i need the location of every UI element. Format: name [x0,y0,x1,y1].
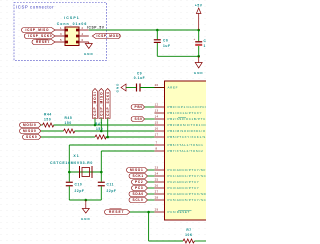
node: ICSP_SCK0 tap [106,136,109,139]
U1 pin stubs [154,88,164,213]
wire: ICSP_MOSI drop [94,119,96,126]
wire: PC2 to pin 25 [148,181,155,183]
capacitor C9 0.1uF (AREF decoupling) [134,72,146,92]
svg-text:27: 27 [155,190,159,194]
global label SCK1 (pin 24) [129,174,148,179]
svg-text:8: 8 [156,147,158,151]
wire: C9 to AREF pin 20 [140,87,165,89]
svg-text:150: 150 [96,127,103,131]
svg-text:MOSI0: MOSI0 [23,123,36,127]
svg-text:0.1uF: 0.1uF [134,76,146,80]
svg-text:PB1/OC1A/PTCXY: PB1/OC1A/PTCXY [168,111,203,115]
global label PB0 (pin 12) [131,105,145,110]
ground (below ICSP1 pin 6) [84,42,94,56]
global label PC2 (pin 25) [132,180,148,185]
svg-text:GND: GND [194,71,204,75]
svg-text:RESET: RESET [36,40,50,44]
svg-text:PC0/ADC0/PTCY/MISO1: PC0/ADC0/PTCY/MISO1 [168,168,207,172]
resonator X1 CSTCE16M0V53-R0 [50,154,93,178]
svg-text:ICSP_MOSI: ICSP_MOSI [97,34,121,38]
wire: SCK0 label to R47 [41,136,95,138]
svg-text:ICSP connector: ICSP connector [16,4,54,9]
wire: SCL0 to pin 28 [148,199,155,201]
svg-text:20: 20 [155,83,159,87]
svg-text:GND: GND [84,52,94,56]
global label ICSP_MISO (pin 1) [22,28,56,33]
global label ICSP_MOSI (vertical) [93,89,98,119]
wire: U1 pin 7 XTAL1 to crystal [69,144,154,146]
svg-text:MISO0: MISO0 [23,129,36,133]
svg-text:17: 17 [155,133,159,137]
U1 pin numbers [155,83,159,212]
svg-text:+5V: +5V [195,4,203,8]
svg-text:SS0: SS0 [135,117,143,121]
wire: R47 to U1 pin 17 (SCK0) [106,136,155,138]
svg-text:2: 2 [82,26,84,30]
svg-text:ICSP_MISO: ICSP_MISO [26,28,50,32]
svg-text:ICSP1: ICSP1 [64,16,80,20]
svg-text:C4: C4 [204,39,207,43]
wire: RESET drop [148,212,150,241]
wire: PB0 label to pin 12 [145,106,155,108]
U1 pin names [168,86,215,215]
svg-text:PB4/MISO0/RXD1/OC2B: PB4/MISO0/RXD1/OC2B [168,129,207,133]
power +5V [195,4,203,31]
svg-text:C6: C6 [163,39,168,43]
node: +5V / C4 junction [197,29,200,32]
svg-text:GND: GND [115,83,119,93]
svg-text:X1: X1 [73,154,79,158]
wire: MISO1 to pin 23 [148,169,155,171]
global label RESET (pin 29) [105,209,131,215]
ground (below crystal) [81,200,91,221]
svg-text:7: 7 [156,141,158,145]
svg-text:150: 150 [65,121,72,125]
global label MISO0 [20,129,42,134]
svg-text:1uF: 1uF [163,44,171,48]
svg-text:PC2/ADC2/PTCY: PC2/ADC2/PTCY [168,180,200,184]
resistor R47 150 [95,122,106,139]
global label SCL0 (pin 28) [129,198,148,203]
svg-text:ICSP_SCK0: ICSP_SCK0 [28,34,52,38]
connector ICSP1 (Conn_01x06) [55,16,89,46]
global label ICSP_SCK0 (vertical) [105,89,110,119]
svg-text:16: 16 [155,127,159,131]
svg-text:CSTCE16M0V53-R0: CSTCE16M0V53-R0 [50,161,93,165]
svg-text:PC1/ADC1/PTCY/SCK1: PC1/ADC1/PTCY/SCK1 [168,174,207,178]
svg-text:PB6/XTAL1/TOSC1: PB6/XTAL1/TOSC1 [168,143,204,147]
svg-text:SCL0: SCL0 [133,198,144,202]
svg-text:R45: R45 [65,116,73,120]
capacitor C6 1uF [154,30,171,56]
wire: R45 to U1 pin 16 (MISO0) [75,130,155,132]
svg-text:PB2/SS0/OC1B/PTCXY: PB2/SS0/OC1B/PTCXY [168,117,207,121]
global label MOSI0 [20,123,42,128]
svg-text:150: 150 [44,117,51,121]
svg-text:10K: 10K [185,233,193,237]
wire: RESET label to pin 29 [130,211,154,213]
svg-text:PB0: PB0 [135,105,143,109]
node: ICSP_MISO tap [100,130,103,133]
svg-text:10uF: 10uF [204,44,207,48]
wire: ICSP_MISO drop [100,119,102,132]
node: ICSP_MOSI tap [94,124,97,127]
svg-text:28: 28 [155,196,159,200]
wire: SS0 label to pin 14 [145,118,155,120]
node: ground tap [85,199,88,202]
svg-text:SDA0: SDA0 [133,192,144,196]
svg-text:22pF: 22pF [107,189,117,193]
svg-text:+: + [194,37,196,41]
wire: MOSI0 label to R44 [41,124,43,126]
wire: caps bottom rail [157,55,198,57]
wire: XTAL2 riser [100,151,102,172]
wire: RESET bottom run to R7 [149,240,183,242]
global label RESET (pin 5) [32,40,55,45]
svg-text:PB3/MOSI0/TXD1/OC2A: PB3/MOSI0/TXD1/OC2A [168,123,207,127]
global label PC3 (pin 26) [132,186,148,191]
svg-text:24: 24 [155,172,159,176]
svg-text:23: 23 [155,166,159,170]
resistor R44 150 [43,113,54,128]
wire: ICSP_SCK0 drop [107,119,109,138]
svg-text:3: 3 [60,32,62,36]
svg-text:PC6/RESET: PC6/RESET [168,210,191,214]
svg-text:PC2: PC2 [135,180,143,184]
wire: ICSP_5V rail (pin 2 to +5V) [89,29,199,31]
node: XTAL1 / C10 junction [68,171,71,174]
svg-text:ICSP_5V: ICSP_5V [87,26,105,30]
wire: XTAL1 riser [68,145,70,172]
svg-text:RESET: RESET [109,210,125,214]
ground (below C4/C6) [194,56,204,74]
svg-text:PB5/PTCXY/XCK1/SCK0: PB5/PTCXY/XCK1/SCK0 [168,135,207,139]
capacitor C4 (polarized) [194,30,214,56]
svg-text:13: 13 [155,109,159,113]
svg-text:C10: C10 [75,183,83,187]
global label MISO1 (pin 23) [127,168,148,173]
svg-text:GND: GND [81,217,91,221]
svg-text:C11: C11 [107,183,115,187]
wire: crystal ground rail [69,199,101,201]
wire: R44 to U1 pin 15 (MOSI0) [54,124,155,126]
resistor R45 150 [64,116,75,133]
global label SS0 (pin 14) [131,117,145,122]
svg-text:MISO1: MISO1 [130,168,143,172]
resistor R7 10K [183,228,195,243]
svg-text:25: 25 [155,178,159,182]
svg-text:1: 1 [60,26,62,30]
svg-text:C9: C9 [137,72,142,76]
node: XTAL2 / C11 junction [100,171,103,174]
microcontroller U1 ATmega328PB (body, clipped at right edge) [165,81,210,220]
wire: crystal row [69,171,101,173]
svg-text:14: 14 [155,115,159,119]
svg-text:PC3/ADC3/PTCY: PC3/ADC3/PTCY [168,186,200,190]
svg-text:PB0/ICP1/CLKO/PCINT0: PB0/ICP1/CLKO/PCINT0 [168,105,207,109]
capacitor C11 22pF [98,172,117,200]
svg-text:PC3: PC3 [135,186,143,190]
wire: PC3 to pin 26 [148,187,155,189]
svg-text:ICSP_MOSI: ICSP_MOSI [93,91,97,117]
capacitor C10 22pF [66,172,85,200]
svg-text:ICSP_SCK0: ICSP_SCK0 [106,91,110,118]
wire: SCK1 to pin 24 [148,175,155,177]
svg-text:ICSP_MISO: ICSP_MISO [99,91,103,117]
svg-text:R44: R44 [44,113,52,117]
svg-text:PB7/XTAL2/TOSC2: PB7/XTAL2/TOSC2 [168,149,204,153]
node: C6 top junction [156,29,159,32]
node: C4 bottom / GND junction [197,55,200,58]
svg-text:5: 5 [60,38,62,42]
wire: GND to C9 [126,87,136,89]
svg-text:15: 15 [155,121,159,125]
wire: U1 pin 8 XTAL2 to crystal [101,150,154,152]
global label SCK0 [23,135,42,140]
svg-text:4: 4 [82,32,84,36]
svg-text:SCK1: SCK1 [133,174,144,178]
wire: R7 to right edge [195,240,207,242]
global label SDA0 (pin 27) [129,192,148,197]
svg-text:12: 12 [155,103,159,107]
svg-text:AREF: AREF [168,86,179,90]
svg-text:26: 26 [155,184,159,188]
global label ICSP_MOSI (pin 4) [92,34,120,39]
svg-text:PC4/ADC4/PTCX/SDA0: PC4/ADC4/PTCX/SDA0 [168,192,207,196]
svg-text:R7: R7 [186,228,191,232]
svg-text:6: 6 [82,38,84,42]
wire: SDA0 to pin 27 [148,193,155,195]
note box: ICSP connector group outline [14,3,107,61]
svg-text:PC5/ADC5/PTCY/SCL0: PC5/ADC5/PTCY/SCL0 [168,198,207,202]
svg-text:SCK0: SCK0 [26,135,37,139]
node: RESET junction [147,211,150,214]
svg-text:29: 29 [155,208,159,212]
global label ICSP_MISO (vertical) [99,89,104,119]
wire: MISO0 label to R45 [41,130,64,132]
svg-text:22pF: 22pF [75,189,85,193]
svg-text:Conn_01x06: Conn_01x06 [57,22,88,26]
global label ICSP_SCK0 (pin 3) [24,34,55,39]
ground (left of C9, rotated) [115,83,126,93]
